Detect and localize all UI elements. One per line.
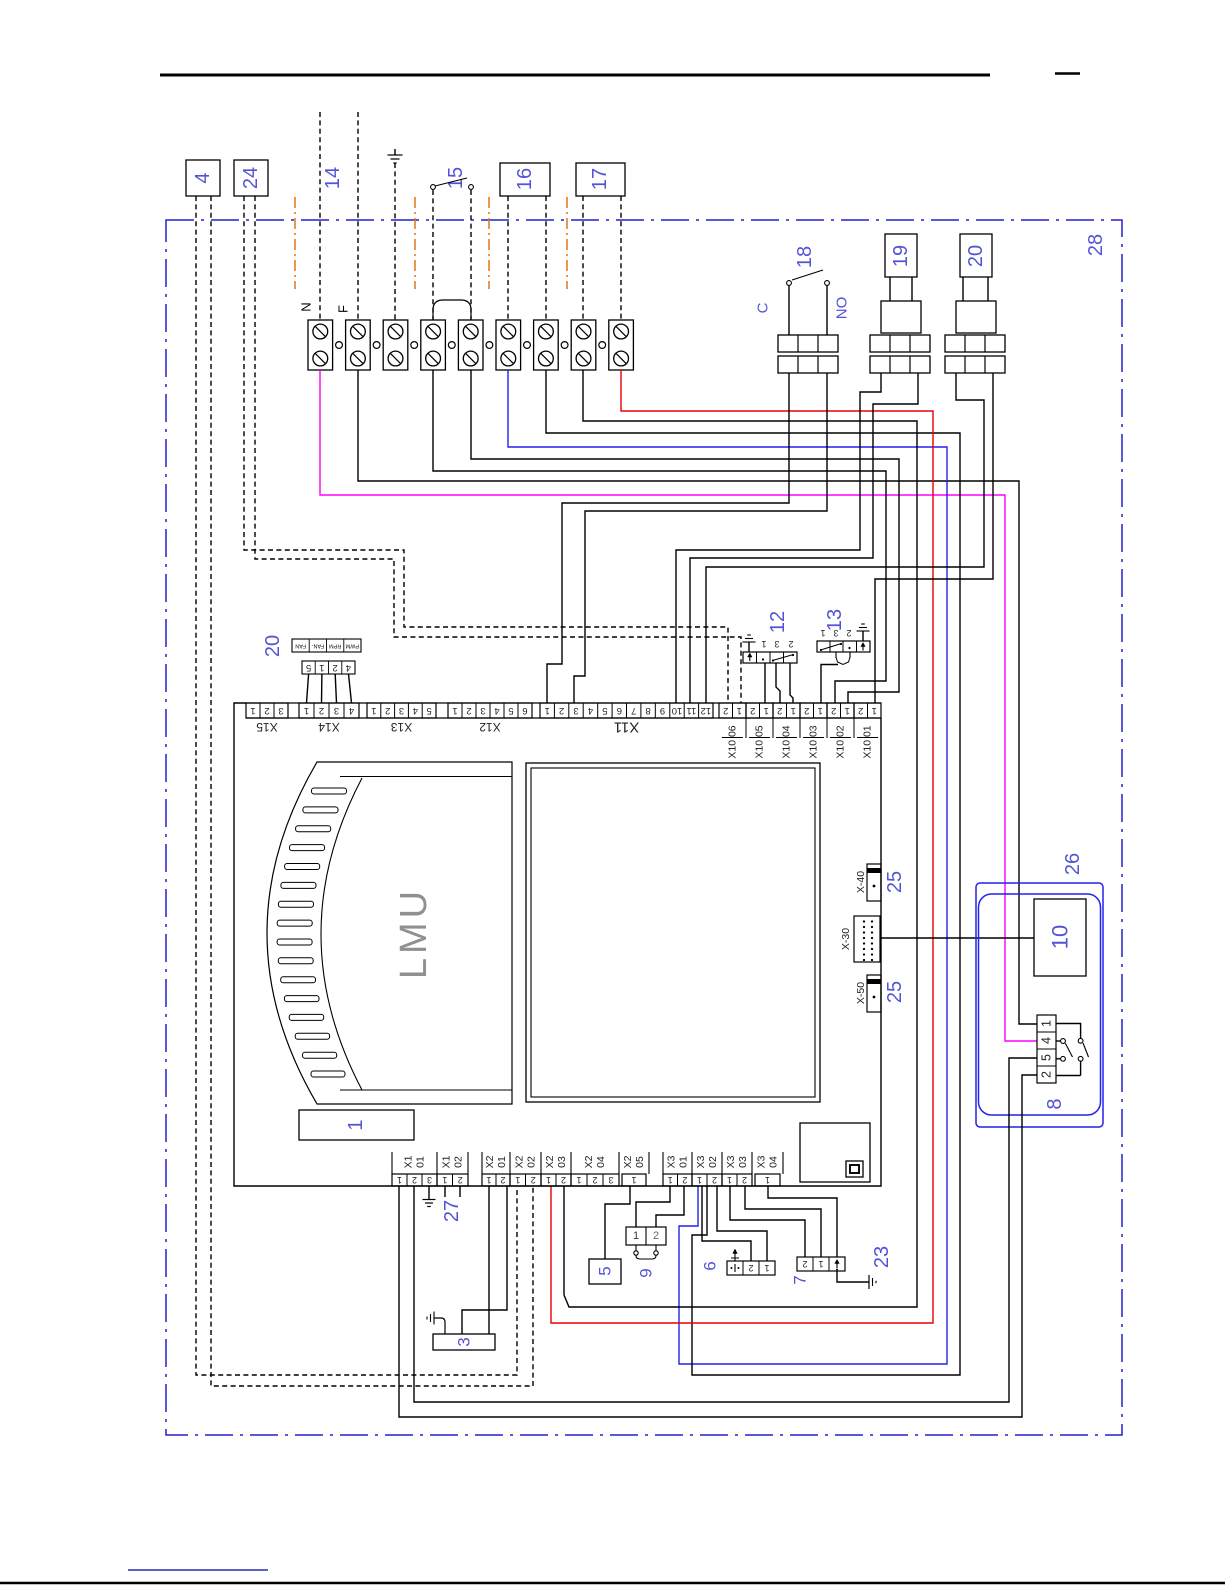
plug 19 neck <box>889 277 891 301</box>
wire X1-01.1 to panel contact 2 (long rail) <box>399 1075 1037 1417</box>
svg-text:7: 7 <box>631 705 636 716</box>
svg-text:3: 3 <box>573 705 578 716</box>
switch 18 contact C <box>787 281 792 286</box>
wire X-30 to display 10 <box>880 937 1034 939</box>
svg-text:24: 24 <box>240 167 262 189</box>
svg-text:15: 15 <box>445 167 467 189</box>
svg-text:X10 06: X10 06 <box>727 725 739 758</box>
svg-text:1: 1 <box>1040 1020 1054 1027</box>
wire X2-05.1 to gas valve 5 <box>605 1186 630 1259</box>
terminal block 1 <box>308 320 333 370</box>
connector X10 06 <box>719 703 746 718</box>
display unit 10 <box>1034 899 1086 976</box>
wire X2-01.1 to ignition box 3 <box>488 1186 490 1334</box>
plug 20 body <box>960 234 992 277</box>
outer enclosure border 28 (blue dash-dot) <box>166 220 1122 1435</box>
svg-text:3: 3 <box>455 1337 474 1346</box>
svg-text:01: 01 <box>415 1156 427 1168</box>
svg-text:6: 6 <box>617 705 622 716</box>
panel switch pole B contacts <box>1078 1038 1083 1043</box>
wire sensor13 to X10-03.2 <box>821 665 838 704</box>
plug 20 neck <box>962 277 964 301</box>
svg-text:9: 9 <box>637 1268 656 1277</box>
svg-text:2: 2 <box>788 639 793 649</box>
svg-text:1: 1 <box>250 705 255 716</box>
svg-text:2: 2 <box>723 705 728 716</box>
svg-text:2: 2 <box>385 705 390 716</box>
svg-text:X2: X2 <box>544 1155 556 1168</box>
svg-text:LMU: LMU <box>393 887 435 979</box>
switch 15 blade <box>435 178 467 186</box>
svg-text:05: 05 <box>634 1156 646 1168</box>
wire sensor7.2 to X3-03.2 <box>745 1186 821 1257</box>
connector X2 01 <box>482 1174 510 1186</box>
svg-text:20: 20 <box>965 245 987 267</box>
svg-text:N: N <box>299 302 314 311</box>
svg-text:04: 04 <box>768 1156 780 1168</box>
sensor 13 body <box>817 641 870 652</box>
connector X-40 <box>867 864 881 901</box>
svg-text:4: 4 <box>413 705 418 716</box>
wire X1-01.2 to panel contact 5 (long rail) <box>414 1058 1037 1402</box>
svg-text:X2: X2 <box>622 1155 634 1168</box>
svg-text:3: 3 <box>399 705 404 716</box>
svg-text:1: 1 <box>576 1175 581 1185</box>
svg-text:F: F <box>336 305 351 313</box>
wire fan pin1 to X14.1 <box>307 674 309 703</box>
svg-text:5: 5 <box>602 705 607 716</box>
sensor block 6 <box>727 1261 775 1275</box>
svg-text:2: 2 <box>319 705 324 716</box>
terminal link hole <box>524 342 531 349</box>
wire plug19 pin2 to X11.11 <box>690 373 918 703</box>
svg-text:2: 2 <box>592 1175 597 1185</box>
component box 16 <box>500 163 550 196</box>
svg-text:2: 2 <box>332 662 337 673</box>
wire fan pin2 to X14.2 <box>321 674 323 703</box>
svg-text:FAN-: FAN- <box>311 643 324 649</box>
wire sensor7.1 to X3-03.1 <box>730 1186 805 1257</box>
svg-text:X10 04: X10 04 <box>781 725 793 758</box>
svg-text:1: 1 <box>764 1263 769 1273</box>
wire box24 pin2 (dashed) to X10-06.2 <box>255 196 741 703</box>
svg-text:12: 12 <box>767 611 789 633</box>
jumper block 9 <box>626 1227 666 1245</box>
svg-text:03: 03 <box>556 1156 568 1168</box>
svg-text:X15: X15 <box>256 720 278 734</box>
footer rule <box>0 1582 1225 1585</box>
connector X13 <box>367 703 436 718</box>
stub X1-02.2 <box>459 1186 461 1197</box>
wire plug20 pin1 to X11.12 <box>706 373 984 703</box>
svg-text:2: 2 <box>264 705 269 716</box>
svg-text:01: 01 <box>496 1156 508 1168</box>
terminal block 4 <box>421 320 446 370</box>
svg-text:5: 5 <box>426 705 431 716</box>
svg-text:X12: X12 <box>479 720 501 734</box>
connector X3 02 <box>692 1174 722 1186</box>
earth at ignition box 3 <box>434 1318 445 1334</box>
wire sensor7 earth <box>837 1271 869 1282</box>
terminal block 5 <box>458 320 483 370</box>
svg-text:2: 2 <box>742 1175 747 1185</box>
LMU inner bottom edge <box>340 1089 512 1091</box>
sensor 12 dot <box>762 658 764 660</box>
svg-text:5: 5 <box>1040 1054 1054 1061</box>
svg-text:25: 25 <box>884 981 906 1003</box>
svg-text:5: 5 <box>596 1266 615 1275</box>
component box 24 <box>234 160 268 196</box>
wire sensor12 to X10-04.2 <box>790 663 793 703</box>
panel connector 1/4/5/2 <box>1037 1015 1056 1083</box>
stub X1-02.1 <box>444 1186 446 1197</box>
wire terminal7 to X3-02.2 <box>546 370 960 1375</box>
svg-text:1: 1 <box>727 1175 732 1185</box>
svg-text:14: 14 <box>322 167 344 189</box>
ignition box 3 <box>433 1334 495 1350</box>
svg-text:4: 4 <box>588 705 593 716</box>
component box 1 <box>299 1110 414 1140</box>
connector 19 row1 <box>870 335 930 352</box>
svg-text:1: 1 <box>818 705 823 716</box>
svg-text:X3: X3 <box>756 1155 768 1168</box>
terminal block 6 <box>496 320 521 370</box>
svg-text:2: 2 <box>804 705 809 716</box>
svg-text:10: 10 <box>672 705 683 716</box>
X10 05 label divider <box>749 737 770 739</box>
jumper bridge terminals 4-5 <box>433 300 471 320</box>
svg-text:2: 2 <box>653 1230 659 1242</box>
switch 18 contact NO <box>825 281 830 286</box>
connector X-50 <box>867 975 881 1012</box>
svg-text:X3: X3 <box>695 1155 707 1168</box>
svg-text:16: 16 <box>514 168 536 190</box>
svg-text:X3: X3 <box>725 1155 737 1168</box>
svg-text:19: 19 <box>890 245 912 267</box>
svg-text:X2: X2 <box>484 1155 496 1168</box>
service socket box <box>800 1123 870 1182</box>
wire switch18 NO pole <box>826 285 828 335</box>
svg-text:3: 3 <box>480 705 485 716</box>
page header rule <box>160 74 990 77</box>
wire switch18 C pole <box>788 285 790 335</box>
wire fan pin3 to X14.3 <box>335 674 336 703</box>
svg-text:3: 3 <box>608 1175 613 1185</box>
svg-text:8: 8 <box>1044 1098 1066 1109</box>
connector X1 02 <box>437 1174 468 1186</box>
connector X1 01 <box>392 1174 437 1186</box>
svg-text:3: 3 <box>833 628 838 638</box>
svg-text:02: 02 <box>526 1156 538 1168</box>
connector 20 row2 <box>945 356 1005 373</box>
terminal link hole <box>486 342 493 349</box>
wire sensor12 to X10-05.2 <box>764 663 766 703</box>
connector X3 01 <box>663 1174 692 1186</box>
terminal block 9 <box>609 320 634 370</box>
wire 17 pin1 (dashed) to terminal 8 <box>582 196 584 320</box>
fan signal name box <box>292 639 361 652</box>
svg-text:2: 2 <box>712 1175 717 1185</box>
svg-text:2: 2 <box>858 705 863 716</box>
sensor 12 body <box>743 652 797 663</box>
svg-text:11: 11 <box>686 705 696 716</box>
connector 18 row1 <box>778 335 838 352</box>
jumper block 9 link wire <box>636 1256 656 1260</box>
terminal link hole <box>411 342 418 349</box>
connector X2 03 <box>541 1174 571 1186</box>
svg-text:3: 3 <box>774 639 779 649</box>
X10 04 label divider <box>776 737 797 739</box>
panel switch pole A contacts <box>1061 1039 1066 1044</box>
svg-text:C: C <box>755 302 772 313</box>
svg-text:2: 2 <box>559 705 564 716</box>
svg-text:X13: X13 <box>391 720 413 734</box>
earth under X1-01.3 <box>428 1186 430 1200</box>
sensor 6 glyph <box>734 1264 736 1272</box>
plug 19 collar <box>881 301 921 333</box>
component box 17 <box>576 163 625 196</box>
svg-text:X1: X1 <box>441 1155 453 1168</box>
svg-text:1: 1 <box>486 1175 491 1185</box>
svg-text:2: 2 <box>748 1263 753 1273</box>
svg-text:4: 4 <box>494 705 499 716</box>
processor block (double square) <box>526 763 820 1102</box>
X10 02 label divider <box>830 737 851 739</box>
connector X15 <box>246 703 288 718</box>
svg-text:X10 02: X10 02 <box>835 725 847 758</box>
connector X2 02 <box>510 1174 541 1186</box>
wire fan pin4 to X14.4 <box>349 674 352 703</box>
wire plug19 pin1 to X11.10 <box>676 373 881 703</box>
sensor 6 arrow <box>734 1251 736 1261</box>
jumper block 9 link pins <box>635 1245 637 1251</box>
connector X10 03 <box>800 703 827 718</box>
svg-text:23: 23 <box>871 1246 893 1268</box>
LMU vent slots <box>312 788 347 794</box>
svg-text:2: 2 <box>531 1175 536 1185</box>
svg-text:02: 02 <box>707 1156 719 1168</box>
svg-text:1: 1 <box>818 1259 823 1269</box>
svg-text:17: 17 <box>589 168 611 190</box>
terminal link hole <box>373 342 380 349</box>
svg-text:02: 02 <box>453 1156 465 1168</box>
terminal link hole <box>336 342 343 349</box>
wire jumper9.2 to X3-01.2 <box>656 1186 684 1227</box>
earth at sensor 12 <box>748 642 750 652</box>
X10 03 label divider <box>803 737 824 739</box>
wire box24 pin1 (dashed) to X10-06.1 <box>244 196 728 703</box>
svg-text:X14: X14 <box>318 720 340 734</box>
svg-text:X-50: X-50 <box>855 982 867 1004</box>
sensor 13 blade <box>821 644 842 651</box>
svg-text:3: 3 <box>278 705 283 716</box>
wire 16 pin1 (dashed) to terminal 6 <box>507 196 509 320</box>
svg-text:2: 2 <box>750 705 755 716</box>
svg-text:2: 2 <box>412 1175 417 1185</box>
svg-text:1: 1 <box>442 1175 447 1185</box>
connector X3 04 <box>755 1174 780 1186</box>
earth symbol above terminal 3 <box>394 149 396 155</box>
sensor 12 arrow glyph <box>749 655 751 662</box>
terminal link hole <box>599 342 606 349</box>
svg-text:X-40: X-40 <box>855 871 867 893</box>
wire switch15 pole a (dashed) to terminal 4 <box>432 190 434 320</box>
wire X2-01.2 to ignition box 3 <box>462 1186 507 1334</box>
wire phase terminal2 to panel contact 1 <box>358 370 1037 1024</box>
connector X-30 <box>854 916 880 962</box>
connector X2 04 <box>571 1174 619 1186</box>
svg-text:4: 4 <box>349 705 354 716</box>
svg-text:NO: NO <box>834 297 851 320</box>
sensor 7 arrow glyph <box>836 1261 838 1268</box>
control panel 26 outer border (blue) <box>976 883 1103 1127</box>
footer link underline (blue) <box>128 1569 268 1571</box>
svg-text:1: 1 <box>697 1175 702 1185</box>
svg-text:2: 2 <box>466 705 471 716</box>
connector X10 04 <box>773 703 800 718</box>
control panel 26 inner border (blue) <box>979 894 1101 1115</box>
sensor 13 pin stems and brace <box>835 652 837 658</box>
svg-text:12: 12 <box>701 705 712 716</box>
svg-text:2: 2 <box>802 1259 807 1269</box>
svg-text:1: 1 <box>820 628 825 638</box>
strip band bottom edge <box>246 717 881 719</box>
svg-text:4: 4 <box>192 172 214 183</box>
switch 18 blade <box>792 270 823 280</box>
svg-text:FAN: FAN <box>295 643 306 649</box>
controller module LMU outline <box>267 762 512 1104</box>
svg-text:X10 03: X10 03 <box>808 725 820 758</box>
svg-text:1: 1 <box>345 1119 367 1130</box>
svg-text:1: 1 <box>452 705 457 716</box>
sensor 13 dot <box>848 647 850 649</box>
panel switch pole B blade <box>1083 1043 1089 1057</box>
terminal link hole <box>561 342 568 349</box>
terminal link hole <box>448 342 455 349</box>
wire 18-C to X11.1 <box>547 373 789 703</box>
earth 23 <box>868 1275 870 1289</box>
svg-text:1: 1 <box>515 1175 520 1185</box>
svg-text:RPM: RPM <box>329 643 342 649</box>
svg-text:4: 4 <box>346 662 351 673</box>
svg-text:1: 1 <box>631 1175 636 1185</box>
LMU inner top edge <box>340 776 512 778</box>
svg-text:04: 04 <box>595 1156 607 1168</box>
connector X12 <box>448 703 532 718</box>
sensor 13 arrow glyph <box>862 644 864 651</box>
strip band top edge <box>246 702 881 704</box>
svg-text:8: 8 <box>645 705 650 716</box>
svg-text:X11: X11 <box>614 719 640 736</box>
terminal block 3 <box>383 320 408 370</box>
panel switch pole A blade <box>1065 1043 1072 1057</box>
svg-text:1: 1 <box>791 705 796 716</box>
switch 15 contact b <box>469 185 474 190</box>
X10 01 label divider <box>857 737 878 739</box>
svg-text:3: 3 <box>427 1175 432 1185</box>
svg-text:1: 1 <box>546 1175 551 1185</box>
svg-text:2: 2 <box>831 705 836 716</box>
connector X2 05 <box>622 1174 646 1186</box>
wire earth (dashed) to terminal 3 <box>394 163 396 320</box>
svg-text:7: 7 <box>791 1275 810 1284</box>
wire field phase (dashed) to terminal 2 <box>357 112 359 320</box>
svg-text:20: 20 <box>262 635 284 657</box>
svg-text:4: 4 <box>1040 1037 1054 1044</box>
terminal block 2 <box>346 320 371 370</box>
svg-text:1: 1 <box>872 705 877 716</box>
connector 19 row2 <box>870 356 930 373</box>
svg-text:13: 13 <box>824 609 846 631</box>
switch 15 contact a <box>431 185 436 190</box>
svg-text:1: 1 <box>397 1175 402 1185</box>
connector X14 <box>299 703 359 718</box>
svg-text:1: 1 <box>319 662 324 673</box>
svg-text:2: 2 <box>500 1175 505 1185</box>
svg-text:10: 10 <box>1048 925 1073 949</box>
svg-text:6: 6 <box>522 705 527 716</box>
terminal block 7 <box>534 320 559 370</box>
connector 20 row1 <box>945 335 1005 352</box>
connector X10 02 <box>827 703 854 718</box>
svg-text:2: 2 <box>846 628 851 638</box>
svg-text:27: 27 <box>441 1200 463 1222</box>
svg-text:1: 1 <box>764 705 769 716</box>
svg-text:6: 6 <box>701 1261 720 1270</box>
wire terminal5 to X10-02.1 <box>471 370 899 703</box>
wire terminal9 (red) to X2-03.1 <box>551 370 933 1323</box>
svg-text:1: 1 <box>633 1230 639 1242</box>
X10 06 label divider <box>722 737 743 739</box>
svg-text:PWM: PWM <box>345 643 359 649</box>
panel switch loop wire <box>1056 1024 1081 1039</box>
svg-text:2: 2 <box>777 705 782 716</box>
plug 20 collar <box>956 301 996 333</box>
phase separator dash-dot orange 3 <box>488 197 490 289</box>
page header tick right <box>1055 72 1080 75</box>
wire sensor6.2 to X3-02 aux <box>702 1186 751 1261</box>
svg-text:X-30: X-30 <box>840 928 852 950</box>
svg-text:1: 1 <box>668 1175 673 1185</box>
wire 17 pin2 (dashed) to terminal 9 <box>620 196 622 320</box>
wire plug20 pin2 to X10-01.1 <box>875 373 993 703</box>
svg-text:X10 01: X10 01 <box>862 725 874 758</box>
svg-text:9: 9 <box>660 705 665 716</box>
wire terminal4 to X10-02.2 <box>433 370 886 703</box>
wire neutral (magenta) terminal1 to panel contact 4 <box>320 370 1037 1041</box>
connector 18 row2 <box>778 356 838 373</box>
wire sensor7.3 to X3-04.1 <box>768 1186 837 1257</box>
component box 4 <box>186 160 220 196</box>
svg-text:1: 1 <box>845 705 850 716</box>
svg-text:01: 01 <box>678 1156 690 1168</box>
connector X10 01 <box>854 703 881 718</box>
svg-text:26: 26 <box>1062 853 1084 875</box>
svg-text:1: 1 <box>737 705 742 716</box>
wire terminal6 (blue) to X3-02.1 <box>508 370 947 1364</box>
svg-text:1: 1 <box>765 1175 770 1185</box>
sensor 12 blade <box>773 655 794 661</box>
wire box4 pin2 (dashed) to X2-02.2 <box>211 196 533 1386</box>
svg-text:1: 1 <box>761 639 766 649</box>
wire terminal8 to X2-03.2 <box>564 370 917 1307</box>
panel switch contact stubs <box>1056 1040 1060 1042</box>
svg-text:X3: X3 <box>666 1155 678 1168</box>
LMU vent band inner arc <box>321 778 362 1090</box>
connector X11 <box>540 703 713 718</box>
service socket icon <box>846 1161 863 1177</box>
wire field neutral (dashed) to terminal 1 <box>319 112 321 320</box>
